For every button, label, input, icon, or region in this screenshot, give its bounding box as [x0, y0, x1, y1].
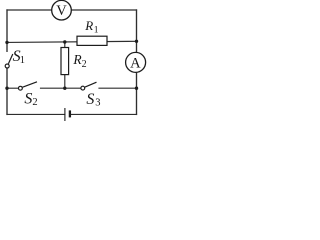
battery short thick plate [69, 110, 71, 117]
resistor R2 label [72, 52, 86, 70]
switch S3 blade [85, 82, 97, 87]
node left lower junction [5, 87, 8, 90]
switch S1 hinge [5, 64, 9, 68]
svg-text:3: 3 [95, 98, 100, 109]
svg-text:S: S [86, 91, 94, 108]
wire middle rail R1 [7, 41, 137, 42]
wire R2 top lead [64, 42, 66, 47]
wire R2 bottom lead [64, 75, 66, 89]
battery long plate [64, 108, 66, 121]
voltmeter V [52, 0, 72, 20]
switch S1 blade [8, 54, 12, 64]
wire left vertical upper [6, 10, 8, 51]
resistor R2 [61, 48, 69, 75]
node R2 bottom junction [63, 87, 66, 90]
svg-text:1: 1 [94, 26, 99, 36]
svg-text:S: S [24, 91, 32, 108]
wire left vertical lower [6, 68, 8, 114]
resistor R1 label [84, 18, 99, 35]
wire top rail [7, 9, 137, 11]
wire lower rail segment left [7, 87, 19, 89]
node right middle junction [135, 40, 138, 43]
wire lower rail segment right [99, 87, 137, 89]
switch S3 label [86, 91, 100, 109]
wire bottom rail left [7, 113, 65, 115]
resistor R1 [77, 36, 107, 45]
svg-text:V: V [56, 3, 67, 19]
svg-text:2: 2 [82, 59, 87, 70]
svg-text:A: A [130, 55, 141, 71]
svg-text:R: R [84, 18, 93, 33]
node left middle junction [5, 41, 8, 44]
ammeter A [126, 52, 146, 72]
wire bottom rail right [70, 113, 137, 115]
switch S2 blade [23, 82, 37, 87]
switch S2 label [24, 91, 37, 108]
svg-text:1: 1 [20, 55, 25, 66]
switch S3 hinge [81, 86, 85, 90]
wire lower rail segment middle [41, 87, 82, 89]
switch S2 hinge [19, 86, 23, 90]
switch S1 label [13, 48, 25, 66]
svg-text:2: 2 [32, 97, 37, 108]
node R2 top junction [63, 40, 66, 43]
node right lower junction [135, 87, 138, 90]
wire right vertical [136, 10, 138, 114]
